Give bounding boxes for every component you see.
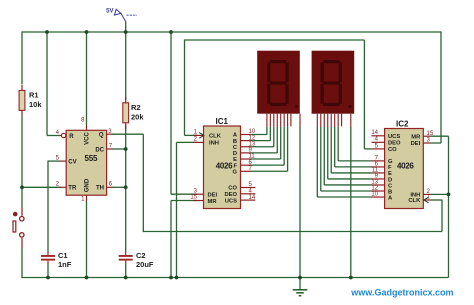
svg-text:10: 10	[249, 129, 256, 135]
svg-text:IC2: IC2	[396, 120, 409, 129]
svg-text:CV: CV	[68, 159, 76, 165]
svg-text:C1: C1	[58, 251, 68, 260]
svg-text:R2: R2	[131, 103, 141, 112]
svg-text:Q: Q	[99, 133, 104, 139]
svg-text:DEI: DEI	[208, 193, 218, 199]
svg-text:D: D	[233, 151, 237, 157]
svg-text:10: 10	[371, 191, 378, 197]
svg-text:15: 15	[427, 131, 434, 137]
svg-text:20uF: 20uF	[136, 260, 154, 269]
svg-text:E: E	[233, 157, 237, 163]
svg-text:GND: GND	[85, 178, 91, 192]
svg-text:C2: C2	[136, 251, 146, 260]
svg-text:11: 11	[249, 154, 256, 160]
svg-text:20k: 20k	[131, 112, 144, 121]
svg-text:DC: DC	[95, 147, 104, 153]
svg-text:13: 13	[249, 141, 256, 147]
svg-text:B: B	[233, 139, 237, 145]
svg-text:15: 15	[190, 195, 197, 201]
svg-text:4026: 4026	[216, 162, 233, 171]
svg-text:CLK: CLK	[408, 198, 421, 204]
svg-text:14: 14	[371, 130, 378, 136]
svg-text:INH: INH	[209, 141, 219, 147]
svg-text:14: 14	[249, 195, 256, 201]
svg-text:UCS: UCS	[388, 134, 400, 140]
svg-text:VCC: VCC	[85, 132, 91, 145]
svg-text:R1: R1	[29, 91, 39, 100]
svg-text:10k: 10k	[29, 100, 42, 109]
svg-text:MR: MR	[411, 134, 421, 140]
svg-text:CLK: CLK	[209, 134, 222, 140]
svg-text:IC1: IC1	[216, 117, 229, 126]
svg-text:TH: TH	[96, 186, 104, 192]
svg-text:DEO: DEO	[224, 192, 237, 198]
svg-text:1nF: 1nF	[58, 260, 72, 269]
svg-text:4026: 4026	[397, 161, 414, 170]
svg-text:www.Gadgetronicx.com: www.Gadgetronicx.com	[350, 287, 453, 297]
svg-text:CO: CO	[388, 147, 397, 153]
svg-text:G: G	[232, 169, 237, 175]
svg-text:TR: TR	[68, 186, 77, 192]
svg-text:DEO: DEO	[388, 141, 401, 147]
svg-text:555: 555	[85, 154, 98, 163]
svg-text:MR: MR	[208, 199, 218, 205]
svg-text:5V: 5V	[106, 9, 113, 15]
svg-text:CO: CO	[228, 186, 237, 192]
svg-text:12: 12	[249, 135, 256, 141]
svg-text:R: R	[69, 134, 74, 140]
svg-text:DEI: DEI	[411, 141, 421, 147]
svg-text:F: F	[233, 163, 237, 169]
svg-text:UCS: UCS	[225, 198, 237, 204]
